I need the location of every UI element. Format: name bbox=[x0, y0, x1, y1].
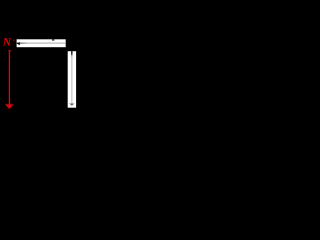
svg-text:N: N bbox=[2, 37, 12, 49]
